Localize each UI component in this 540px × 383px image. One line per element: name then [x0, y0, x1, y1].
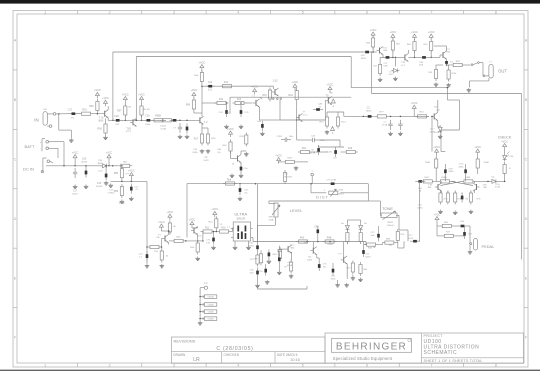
- transistor T23: [341, 256, 348, 264]
- svg-text:PEDAL: PEDAL: [482, 244, 496, 249]
- capacitor C34b T17e: [445, 61, 448, 64]
- wire to T2 base: [177, 119, 197, 121]
- wire inner box top: [230, 96, 351, 98]
- capacitor C32 buffer in: [362, 51, 372, 54]
- svg-text:CUT: CUT: [331, 276, 336, 278]
- resistor R38t: [382, 241, 396, 244]
- wire bus x447 drop: [446, 88, 448, 100]
- power +VCC T9: [327, 83, 334, 92]
- wire tone pot: [379, 201, 381, 215]
- svg-text:+VCC: +VCC: [292, 81, 299, 84]
- diode D13: [438, 125, 442, 133]
- transistor T17: [440, 51, 447, 59]
- wire T1A emitter: [107, 118, 109, 121]
- ground below C27: [238, 197, 243, 201]
- pot VR2 TONE: [381, 211, 397, 220]
- power +VCC check: [501, 140, 508, 149]
- resistor R47b emitter: [379, 62, 382, 76]
- power +VCC R14b: [138, 93, 145, 102]
- transistor T6: [191, 227, 198, 235]
- revision table inner lines: [172, 352, 326, 364]
- resistor R37 series: [160, 119, 174, 122]
- svg-text:2: 2: [108, 364, 110, 368]
- svg-text:BAS: BAS: [98, 162, 103, 165]
- capacitor C30 shunt: [212, 235, 215, 245]
- power +VCC R33: [390, 31, 397, 40]
- power +VCC flip R: [474, 146, 481, 155]
- wire ladder to T4: [246, 102, 253, 104]
- capacitor C25 ladder: [240, 107, 243, 117]
- terminal pins: [273, 98, 275, 100]
- svg-text:8: 8: [495, 364, 497, 368]
- svg-text:BU22/5B: BU22/5B: [284, 177, 292, 179]
- diode D8 clip: [359, 223, 363, 231]
- svg-text:+VCC: +VCC: [122, 93, 129, 96]
- transistor T21: [285, 245, 292, 253]
- wire C33 to T17: [429, 56, 440, 58]
- wire loop line: [269, 200, 368, 202]
- svg-text:+VCC: +VCC: [94, 89, 101, 92]
- resistor R48t: [323, 240, 337, 243]
- svg-text:B: B: [525, 98, 528, 102]
- svg-text:B4b: B4b: [483, 187, 486, 189]
- svg-text:C4B: C4B: [314, 227, 319, 229]
- svg-text:5?1:2: 5?1:2: [126, 131, 132, 133]
- svg-text:CN2B: CN2B: [208, 305, 214, 307]
- capacitor C50 fl: [461, 193, 464, 203]
- power +VCC T4: [251, 85, 258, 94]
- wire tone out right: [397, 243, 399, 248]
- svg-text:+VCC: +VCC: [128, 169, 135, 172]
- capacitor C27 bus: [239, 185, 242, 195]
- svg-text:+R?H: +R?H: [338, 190, 344, 192]
- capacitor C43 pedal: [463, 229, 466, 239]
- capacitor C4N net: [334, 147, 337, 157]
- svg-text:+VCC: +VCC: [434, 213, 441, 216]
- svg-text:R0B: R0B: [386, 238, 391, 240]
- svg-text:1: 1: [44, 364, 46, 368]
- svg-text:DATE 28/03/ 5: DATE 28/03/ 5: [277, 353, 298, 357]
- title block box: [325, 333, 524, 363]
- marker A2: [331, 127, 335, 131]
- svg-text:T1B: T1B: [98, 160, 103, 162]
- svg-text:T.2B: T.2B: [482, 184, 487, 186]
- resistor R42 bt: [359, 262, 362, 276]
- diode D7 clip: [345, 223, 349, 231]
- resistor R25 T5e: [160, 249, 163, 263]
- svg-text:C17: C17: [68, 109, 73, 112]
- svg-text:BATT: BATT: [25, 144, 35, 149]
- svg-text:D I S T: D I S T: [316, 195, 328, 199]
- svg-text:R11: R11: [205, 227, 210, 229]
- wire row2: [120, 119, 166, 121]
- svg-text:+VCC: +VCC: [191, 89, 198, 92]
- svg-text:R21: R21: [302, 148, 307, 150]
- svg-text:1/5B: 1/5B: [383, 66, 388, 68]
- power +VCC pedal: [434, 213, 441, 222]
- wire emitter join: [202, 127, 208, 129]
- node A marker T9: [331, 99, 335, 103]
- wire bypass line riser: [112, 52, 114, 120]
- power +VCC filtered: [128, 169, 135, 178]
- svg-text:R24: R24: [289, 94, 294, 97]
- ground bt R42: [358, 278, 363, 282]
- capacitor C46 pedal: [458, 225, 468, 228]
- svg-text:R1b: R1b: [221, 227, 226, 229]
- svg-text:3: 3: [173, 364, 175, 368]
- svg-text:UB: UB: [43, 109, 47, 111]
- svg-text:R2B: R2B: [368, 248, 373, 250]
- resistor R56 fl: [454, 191, 457, 205]
- capacitor C3 shunt: [178, 123, 182, 133]
- svg-text:R12: R12: [219, 99, 224, 101]
- svg-text:T1B: T1B: [126, 129, 131, 131]
- capacitor C34B net: [281, 138, 291, 142]
- svg-text:C: C: [14, 157, 17, 161]
- wire T6 out up: [202, 232, 204, 241]
- wire C32 to T14: [369, 51, 377, 53]
- svg-text:C2b: C2b: [145, 116, 150, 118]
- ground jack sleeve: [69, 138, 74, 142]
- svg-text:BEHRINGER: BEHRINGER: [336, 342, 407, 353]
- capacitor C19 rail: [85, 168, 88, 178]
- wire T15 emitter2: [438, 126, 440, 128]
- diode LED check: [503, 152, 515, 162]
- ground TR1 left: [233, 246, 238, 250]
- svg-text:47u: 47u: [71, 118, 74, 120]
- resistor R54 fl: [439, 191, 442, 205]
- wire R55 to node: [121, 180, 123, 181]
- behringer logo box: [332, 339, 412, 353]
- wire pins to rail: [271, 119, 280, 121]
- capacitor C13 rail: [73, 168, 77, 178]
- wire R2B right: [297, 161, 308, 163]
- svg-text:+VCC: +VCC: [474, 146, 481, 149]
- transistor T18: [435, 183, 442, 191]
- svg-text:PROJECT: PROJECT: [424, 334, 444, 338]
- svg-text:100n?: 100n?: [72, 193, 79, 195]
- resistor R31 bt: [290, 260, 293, 274]
- svg-text:+VCC: +VCC: [189, 218, 196, 221]
- ground bt T23a: [335, 283, 340, 287]
- power +VCC T1A: [102, 97, 109, 106]
- capacitor C39 tone: [377, 231, 380, 241]
- sheet top scan bar: [0, 0, 540, 4]
- revision table text: [173, 339, 299, 364]
- svg-text:10:16: 10:16: [290, 358, 300, 362]
- svg-text:C4B: C4B: [217, 149, 222, 151]
- ground below C40: [398, 132, 403, 136]
- svg-text:+VCC: +VCC: [167, 211, 174, 214]
- svg-text:4/4Bu: 4/4Bu: [449, 171, 454, 173]
- svg-text:1/16b: 1/16b: [145, 124, 151, 126]
- diode D10 shunt: [391, 69, 399, 73]
- wire riser x147: [146, 181, 148, 264]
- sheet bottom scan line: [0, 370, 540, 371]
- resistor R25t: [396, 229, 399, 243]
- svg-text:+VCC: +VCC: [275, 154, 282, 157]
- resistor R2B mid lower: [283, 160, 297, 163]
- jack J3 DC IN: [23, 158, 56, 173]
- wire T17 collector: [446, 46, 448, 51]
- wire flip cross a: [451, 181, 473, 185]
- resistor R19 net: [344, 150, 358, 153]
- svg-text:4: 4: [237, 11, 239, 15]
- resistor R01: [79, 112, 93, 115]
- svg-text:41:4B: 41:4B: [327, 244, 333, 246]
- svg-text:6: 6: [366, 364, 368, 368]
- wire level wiring: [268, 201, 270, 204]
- svg-text:R06: R06: [89, 105, 94, 108]
- power +VCC R40: [428, 31, 435, 40]
- capacitor C21 T8: [240, 164, 243, 174]
- wire bias node line: [111, 180, 147, 182]
- capacitor C45 flip: [464, 166, 467, 176]
- svg-text:R15: R15: [262, 95, 267, 97]
- resistor R47f: [421, 180, 435, 183]
- switch contact out: [471, 64, 473, 66]
- wire dist pot wiring: [310, 184, 312, 193]
- svg-text:Specialized Studio Equipment: Specialized Studio Equipment: [333, 356, 393, 361]
- resistor R13 mid: [415, 115, 429, 118]
- svg-text:OUT: OUT: [498, 69, 507, 74]
- capacitor C44 flip: [444, 166, 447, 176]
- capacitor C1 mid: [365, 115, 375, 118]
- svg-text:+VCC: +VCC: [411, 102, 418, 105]
- capacitor C40 shunt: [398, 120, 402, 130]
- svg-text:C (28/03/05): C (28/03/05): [216, 346, 253, 352]
- resistor R26 row5: [148, 245, 162, 248]
- wire right bus drop: [521, 94, 523, 260]
- svg-text:C4B: C4B: [257, 121, 262, 123]
- power +VCC T6: [189, 218, 196, 227]
- resistor R52 flip: [435, 157, 438, 171]
- resistor R49 pedal: [442, 234, 456, 237]
- svg-text:+VCC: +VCC: [102, 97, 109, 100]
- power +VCC R34: [411, 31, 418, 40]
- power +VCC post diode: [106, 151, 113, 160]
- svg-text:R5A2: R5A2: [425, 161, 431, 164]
- transistor T7: [296, 114, 303, 122]
- capacitor C22 series: [146, 251, 149, 261]
- transistor T15: [431, 112, 438, 120]
- svg-text:B: B: [14, 98, 17, 102]
- ground pedal: [468, 250, 473, 254]
- wire jack sleeve: [59, 129, 72, 131]
- ground flip 2: [453, 211, 458, 215]
- resistor R55 dropper: [114, 166, 124, 180]
- wire tone net: [365, 242, 367, 245]
- resistor R4b feedback: [200, 70, 203, 84]
- svg-text:6: 6: [366, 11, 368, 15]
- svg-text:CN1B: CN1B: [208, 297, 214, 299]
- wire C31 to T16: [390, 56, 402, 58]
- svg-text:47u: 47u: [217, 152, 220, 154]
- ground below C30: [211, 246, 216, 250]
- ground below C13: [73, 185, 78, 189]
- svg-text:+VCC: +VCC: [106, 151, 113, 154]
- svg-text:1B/1b: 1B/1b: [192, 152, 198, 154]
- resistor R43t: [296, 240, 310, 243]
- title block divider lines: [422, 333, 524, 363]
- svg-text:20RLG: 20RLG: [338, 194, 345, 196]
- wire fb to trigger: [272, 86, 274, 89]
- wire R18 to TR1: [231, 231, 233, 233]
- wire TR1 out: [252, 237, 254, 239]
- transistor T4: [253, 99, 260, 107]
- svg-text:R4BB: R4BB: [441, 177, 447, 179]
- svg-text:R1.4B: R1.4B: [143, 109, 150, 111]
- svg-text:LEVEL: LEVEL: [290, 208, 303, 213]
- wire pedal wiring: [436, 223, 438, 227]
- power +VCC flip L: [433, 146, 440, 155]
- svg-text:C?2u: C?2u: [225, 113, 230, 115]
- wire dist bypass bus: [136, 56, 351, 58]
- ground bias left: [108, 183, 113, 187]
- wire clip join: [346, 220, 348, 223]
- capacitor C17: [68, 112, 78, 115]
- wire R01 to T1A: [93, 113, 102, 115]
- capacitor C29 dist: [328, 182, 338, 185]
- svg-text:C: C: [525, 157, 528, 161]
- jack J2 BATT: [25, 139, 52, 152]
- svg-text:41:4B: 41:4B: [287, 265, 293, 267]
- svg-text:E: E: [14, 276, 17, 280]
- svg-text:41:4?: 41:4?: [389, 74, 394, 76]
- capacitor C30c bt: [264, 266, 267, 276]
- svg-text:+VCC: +VCC: [251, 85, 258, 88]
- connector CN1B: [199, 295, 216, 299]
- ground bt R31: [289, 274, 294, 278]
- wire jack contacts: [479, 62, 483, 64]
- svg-text:R2B: R2B: [287, 158, 292, 160]
- svg-text:Rb8: Rb8: [227, 179, 232, 181]
- jack J1 IN: [34, 109, 59, 130]
- wire T2 collector: [201, 113, 203, 116]
- power +VCC feedback: [199, 61, 206, 70]
- ground flip 3: [469, 210, 474, 214]
- power +VCC mid lower: [275, 154, 282, 163]
- svg-text:P50b: P50b: [119, 203, 125, 205]
- resistor R47t: [359, 230, 362, 244]
- resistor R58 check: [503, 162, 506, 176]
- resistor R23 T5: [168, 221, 171, 235]
- wire row mid2: [408, 56, 419, 58]
- svg-text:C1B: C1B: [419, 62, 424, 64]
- svg-text:+C4B: +C4B: [434, 132, 440, 134]
- power +VCC T8: [227, 128, 234, 137]
- wire T2 emitter: [201, 124, 203, 131]
- capacitor C2 stage3: [170, 119, 180, 122]
- power +VCC R07: [122, 93, 129, 102]
- ground below C42: [277, 271, 282, 275]
- wire bus y100: [447, 99, 459, 101]
- ground below R16: [206, 149, 211, 153]
- wire flip wiring: [435, 157, 437, 159]
- svg-text:R36B: R36B: [155, 116, 161, 118]
- svg-text:100/16: 100/16: [81, 161, 88, 163]
- ground below C15: [104, 181, 109, 185]
- capacitor C37 tone: [410, 240, 420, 243]
- ground below R25: [160, 264, 165, 268]
- connector CN3B: [199, 310, 216, 314]
- svg-text:R5A2: R5A2: [484, 161, 490, 164]
- resistor R13b mid: [325, 115, 328, 129]
- svg-text:+VCC: +VCC: [199, 61, 206, 64]
- wire diode out: [109, 165, 119, 167]
- jack J5 PEDAL: [469, 239, 495, 251]
- svg-text:5: 5: [302, 364, 304, 368]
- transistor T2: [197, 116, 204, 124]
- svg-text:1B/15: 1B/15: [365, 256, 371, 258]
- svg-text:CN3B: CN3B: [208, 312, 214, 314]
- resistor R12b mid: [336, 115, 339, 129]
- power +VCC R44: [370, 29, 377, 38]
- capacitor C47 bt: [332, 266, 335, 276]
- wire ladder: [205, 102, 217, 104]
- svg-text:10/16: 10/16: [203, 160, 209, 162]
- ground below R39: [446, 83, 451, 87]
- transistor T16: [402, 53, 409, 61]
- ground T8 C21: [239, 174, 244, 178]
- svg-text:R56: R56: [114, 190, 119, 193]
- resistor R51f: [461, 180, 475, 183]
- svg-text:CN5B: CN5B: [208, 319, 214, 321]
- wire mid node: [389, 115, 429, 117]
- power +VCC T5a: [167, 211, 174, 220]
- ground below C4B: [260, 132, 265, 136]
- capacitor C31 series: [383, 56, 393, 59]
- wire check: [504, 150, 506, 154]
- resistor R34b: [413, 39, 416, 53]
- ground connector stack: [198, 321, 203, 325]
- svg-text:7: 7: [430, 364, 432, 368]
- svg-text:R09: R09: [186, 104, 191, 107]
- svg-text:TONE: TONE: [382, 206, 393, 211]
- svg-text:10/1B: 10/1B: [160, 126, 166, 128]
- capacitor C4B T4e: [261, 121, 264, 131]
- revision table box: [172, 337, 326, 363]
- capacitor C38 shunt: [388, 120, 392, 130]
- wire bus y87: [351, 87, 447, 89]
- pot VR1 LEVEL: [272, 203, 280, 217]
- ground below C14: [129, 197, 134, 201]
- svg-text:1,B/1b: 1,B/1b: [307, 259, 312, 261]
- wire net join: [339, 140, 341, 147]
- wire T15 emitter: [437, 120, 439, 127]
- power +VCC input stage: [94, 89, 101, 98]
- transistor T1A: [102, 110, 109, 118]
- svg-text:+VCC: +VCC: [327, 83, 334, 86]
- svg-text:1/5B: 1/5B: [419, 65, 424, 67]
- capacitor C34 mid tone: [362, 247, 365, 257]
- ground below R47b: [378, 78, 383, 82]
- wire net lower: [312, 151, 328, 153]
- svg-text:4/4Bu: 4/4Bu: [459, 166, 464, 168]
- svg-text:5: 5: [302, 11, 304, 15]
- capacitor C31 bt: [277, 246, 281, 256]
- resistor R18: [217, 230, 231, 233]
- transistor T1B: [130, 118, 137, 126]
- resistor R14 feedback: [220, 85, 234, 88]
- resistor R36B series: [152, 119, 166, 122]
- wire T6 collector: [191, 227, 193, 230]
- resistor R22 T8: [229, 140, 232, 154]
- diode D9 flip: [490, 179, 498, 183]
- svg-text:R55: R55: [114, 172, 119, 175]
- wire DC rail: [56, 165, 102, 167]
- resistor R46f: [438, 180, 452, 183]
